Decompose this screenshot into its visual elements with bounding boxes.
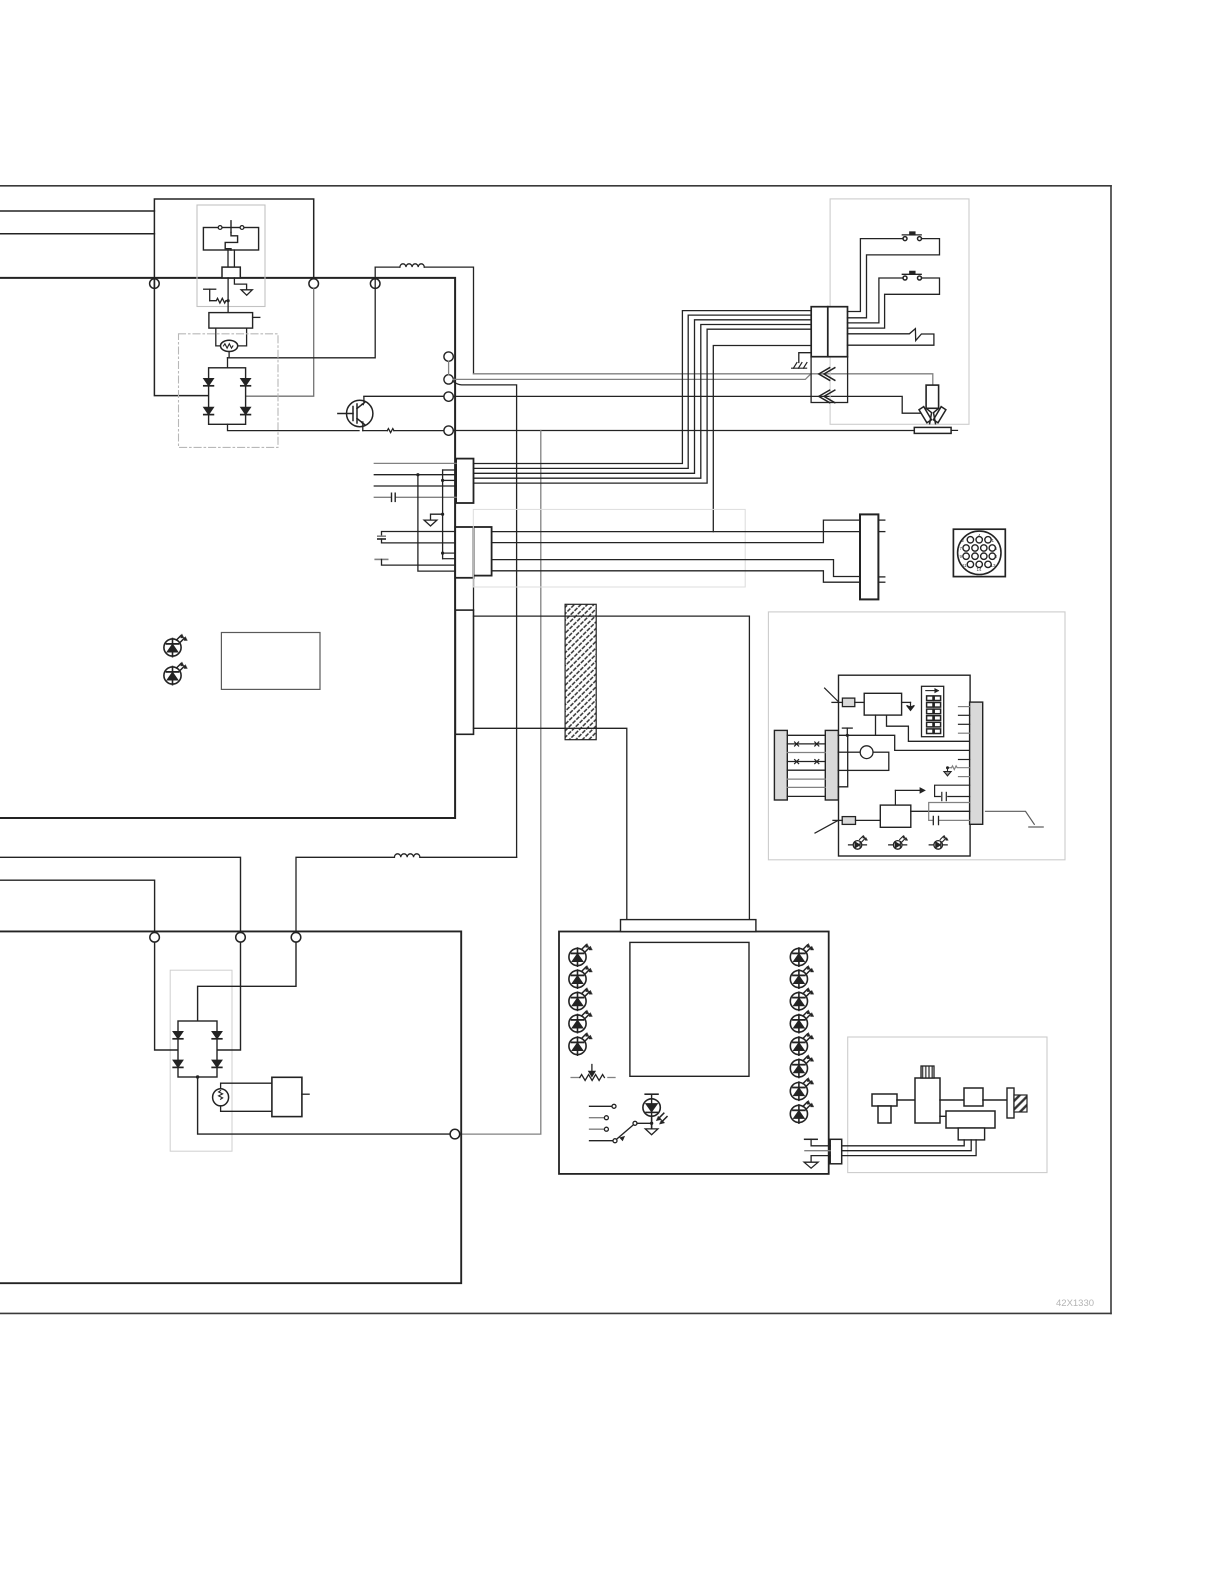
transistor circle on relay	[860, 746, 873, 759]
bridge rectifier CR1 body	[209, 368, 246, 425]
bar stub d	[959, 732, 970, 734]
bridge CR1 diode upper-right	[241, 379, 251, 386]
bridge CR1 diode lower-left	[204, 407, 214, 414]
service boundary box lower	[170, 970, 232, 1151]
ground bus stub to CN2 upper	[443, 552, 456, 554]
power supply inner frame (wire rectangle)	[154, 199, 313, 396]
bar stub c	[959, 723, 970, 725]
panel LED R3	[790, 988, 813, 1011]
interlock connector body left	[811, 307, 828, 357]
panel output connector	[830, 1139, 842, 1164]
panel LED L3	[569, 988, 592, 1011]
bridge rectifier CR2 body	[178, 1021, 217, 1077]
junction dot bridge bottom	[196, 1075, 199, 1078]
power switch contact left	[218, 226, 222, 230]
panel LED L2	[569, 966, 592, 989]
transformer neck wires	[216, 328, 247, 346]
wire motor to bridge top	[228, 352, 230, 368]
junction dot ground bus mid	[441, 513, 444, 516]
panel LED L4	[569, 1010, 592, 1033]
filter box with capacitor	[935, 785, 970, 800]
panel LED L1	[569, 944, 592, 967]
print unit frame	[848, 1037, 1047, 1173]
inductor L1	[375, 264, 473, 374]
DIP switch elements	[927, 696, 941, 734]
panel LED R8	[790, 1101, 813, 1124]
relay block on board	[848, 752, 889, 770]
input resistor R2	[842, 817, 855, 825]
controller board outline	[839, 675, 971, 856]
bundle wire 2	[474, 315, 812, 468]
label box on main board	[221, 633, 320, 690]
feed drop wire to CN2	[418, 475, 455, 571]
panel LED R1	[790, 944, 813, 967]
motor M2 winding squiggle	[219, 1091, 223, 1100]
ribbon wire 7 gray	[787, 786, 825, 788]
sensor wiring 1	[842, 1140, 965, 1146]
slider block	[964, 1088, 983, 1106]
wire T3 to lower thermistor (dark)	[364, 396, 921, 413]
wire lever to LED cathode	[637, 1122, 652, 1124]
wire return rail lower (from feed drop)	[296, 857, 517, 932]
DIP switch arrow	[926, 689, 938, 692]
CN1 pin wire from ground bus	[443, 469, 457, 471]
bridge CR2 diode lower-right	[212, 1060, 222, 1067]
wire T2 to lamp feed drop (dark)	[453, 381, 517, 857]
terminal circle T2 on right edge	[444, 375, 453, 384]
bridge CR2 diode lower-left	[173, 1060, 183, 1067]
panel LED R7	[790, 1078, 813, 1101]
bar stub f gray	[959, 776, 970, 778]
gray return drop at x541	[460, 431, 541, 1135]
cable wire 2	[492, 520, 860, 543]
link solenoid to slider	[940, 1099, 964, 1101]
status LED D4	[889, 836, 908, 850]
ferrite block hatched	[565, 604, 596, 739]
terminal circle T3 on right edge	[444, 392, 453, 401]
ribbon wire 3 gray	[787, 752, 825, 754]
power switch SW	[203, 221, 258, 250]
motor M2 wiring to driver	[221, 1083, 272, 1111]
panel LED R5	[790, 1033, 813, 1056]
DIP switch block	[922, 686, 944, 736]
display window	[630, 942, 749, 1076]
signal arrow	[895, 788, 924, 805]
panel ground arrow	[804, 1162, 818, 1168]
fuser cable frame	[473, 509, 745, 587]
panel LED L5	[569, 1033, 592, 1056]
lamp stub right	[951, 429, 957, 431]
zener junction dot	[946, 766, 949, 769]
panel LED R6	[790, 1055, 813, 1078]
junction dot ground bus upper	[441, 479, 444, 482]
junction dot ground bus lower	[441, 552, 444, 555]
wire circle2 to bridge right	[217, 942, 241, 1050]
line filter box	[222, 267, 240, 278]
node terminal circle mid on main edge	[309, 279, 319, 289]
actuator tee vertical	[878, 1106, 891, 1123]
status LED D3	[849, 836, 868, 850]
wire bridge top to boost inductor	[228, 267, 376, 358]
ribbon wire 2 with twist marks	[787, 742, 825, 746]
bar stub e	[959, 759, 970, 761]
U1 output to ground arrow	[902, 701, 911, 703]
U2 output line	[911, 810, 970, 812]
panel LED R4	[790, 1010, 813, 1033]
heat arrow right wing	[933, 407, 946, 423]
wall hatched block	[1014, 1095, 1027, 1112]
relay stubs to edge connector	[838, 752, 847, 770]
sensor box upper	[946, 1111, 995, 1128]
panel output cap plate	[805, 1138, 818, 1140]
rotary switch lever	[617, 1121, 638, 1140]
power switch contact right	[240, 226, 244, 230]
IGBT Q1	[338, 400, 373, 426]
link tee to solenoid	[897, 1099, 915, 1101]
wire R2 to U2	[856, 819, 881, 821]
ground lead lower	[811, 1156, 830, 1163]
round connector pins row3	[963, 553, 996, 559]
cap loop upper lead gray	[929, 803, 970, 821]
thermal link loop with break symbol	[848, 329, 934, 346]
solenoid coil cap hatched	[921, 1066, 934, 1078]
svg-text:13: 13	[991, 563, 997, 568]
bridge CR2 diode upper-right	[212, 1032, 222, 1039]
wire R1 to U1	[855, 701, 864, 703]
signal ground arrow	[424, 520, 437, 526]
SW1 return wiring	[848, 239, 940, 318]
interlock switch SW1	[902, 232, 921, 241]
capacitor C2 upper lead	[382, 532, 456, 537]
capacitor C1 plates	[392, 493, 396, 501]
R2 lead label slash	[815, 821, 838, 833]
link slider to stop	[983, 1099, 1007, 1101]
wire bridge bottom to emitter rail	[228, 424, 360, 430]
bar stub b	[959, 714, 970, 716]
wire AC feed upper	[0, 857, 241, 932]
connector CN3 body	[455, 610, 473, 734]
gray link T1-T2	[448, 361, 450, 374]
motor driver box	[272, 1077, 302, 1116]
row1 routing into board	[838, 735, 969, 750]
capacitor C3 lead	[382, 559, 456, 565]
ribbon wire 8	[787, 795, 825, 797]
board LED B	[164, 662, 187, 685]
terminal circle T1 on right edge	[444, 352, 453, 361]
wire T4 lamp rail (dark)	[453, 430, 914, 432]
bar stub a	[959, 706, 970, 708]
chassis ground arrow	[241, 290, 252, 295]
wire thermistor upper (gray) from inductor	[474, 374, 933, 385]
bundle wire 3	[474, 320, 812, 474]
node terminal circle right on main edge	[370, 279, 380, 289]
sensor wiring 3	[842, 1140, 976, 1156]
feed wire from filter to relay	[227, 278, 229, 313]
lower block outline	[0, 931, 461, 1283]
ground tap step	[431, 514, 443, 520]
main board block outline	[0, 278, 455, 818]
connector CN1 body	[456, 459, 473, 503]
loop capacitor plates	[933, 816, 938, 824]
wire emitter down	[362, 425, 364, 431]
thermistor housing box	[811, 357, 848, 403]
svg-text:14: 14	[977, 567, 983, 572]
emitter rail with ferrite squiggle	[363, 429, 444, 433]
IGBT emitter arrow	[360, 421, 364, 425]
U1 step wiring right	[887, 715, 970, 741]
thermistor RT1 chevron	[819, 368, 835, 381]
zener to ground with resistor	[948, 766, 970, 770]
CN1 pin stub from ground bus	[443, 479, 457, 481]
svg-text:42X1330: 42X1330	[1056, 1298, 1094, 1309]
wire CN3 to panel right drop	[474, 616, 750, 920]
board output connector bar	[970, 702, 983, 824]
chassis ground hatch symbol	[792, 363, 807, 369]
thermistor RT2 chevron	[819, 390, 835, 403]
wire bridge bottom to return rail	[198, 1077, 451, 1134]
interlock switch SW2	[902, 271, 921, 280]
round connector shell	[958, 531, 1001, 574]
round connector pins row4	[967, 561, 991, 567]
terminal circle T4 on right edge	[444, 426, 453, 435]
test point tee	[842, 728, 852, 735]
gray lead mid	[805, 1150, 830, 1152]
R2 lead in	[833, 819, 842, 821]
bundle wire 4	[474, 325, 812, 479]
heat arrow center vee	[926, 408, 939, 423]
status LED D5	[929, 836, 948, 850]
thermal fuse body	[926, 385, 939, 408]
page border frame	[0, 186, 1111, 1314]
rotary switch contacts	[590, 1104, 618, 1142]
sensor box lower	[958, 1128, 984, 1140]
sensor wiring 2	[842, 1140, 972, 1151]
actuator tee horizontal	[872, 1094, 897, 1106]
chassis ground lead	[799, 353, 811, 363]
bundle wire 1	[474, 311, 812, 464]
panel top connector	[621, 920, 756, 932]
wire circle1 to bridge left	[155, 942, 178, 1050]
input resistor R1	[842, 698, 854, 707]
fuser connector body	[860, 514, 878, 599]
LED ground arrow	[645, 1129, 658, 1135]
solenoid body	[915, 1078, 940, 1123]
round connector pins row1	[967, 537, 991, 543]
CN1 pin wire gray with capacitor C1	[374, 496, 456, 498]
AC inlet sub-assembly gray box	[197, 205, 265, 307]
capacitor C2 plate bottom	[378, 538, 385, 540]
frame ground lead out	[986, 811, 1044, 827]
link CN2 to CN3	[473, 578, 475, 610]
wire circle3 into bridge top	[198, 942, 296, 1021]
bridge CR1 diode upper-left	[204, 379, 214, 386]
contrast potentiometer	[571, 1065, 615, 1081]
node terminal circle left on main edge	[150, 279, 160, 289]
svg-text:11: 11	[962, 563, 967, 568]
ground bus stub to CN2 lower	[443, 558, 456, 560]
inductor L2	[394, 854, 420, 858]
wire collector up and right	[364, 396, 444, 401]
wire AC feed lower	[0, 880, 155, 932]
IC U2	[880, 805, 911, 827]
bundle wire 5	[474, 329, 812, 483]
board LED A	[164, 634, 187, 657]
controller card frame	[768, 612, 1065, 860]
cable wire 1 CN2 to fuser connector	[492, 531, 860, 533]
card edge connector left bar	[774, 730, 787, 800]
dash-dot service boundary around bridge	[179, 334, 279, 448]
SW1 wiring	[848, 239, 904, 312]
junction dot feed drop	[416, 473, 419, 476]
cap plate lead	[811, 1139, 830, 1146]
fuser connector stub 4	[878, 581, 884, 583]
capacitor C2 lower lead	[382, 539, 456, 543]
cable wire 3	[492, 560, 860, 577]
link solenoid to sensor box	[940, 1115, 946, 1117]
bundle wire 6 from CN2	[713, 346, 811, 532]
motor M2	[213, 1089, 229, 1106]
cable wire 4	[492, 571, 860, 582]
edge terminal circle 2	[236, 933, 246, 943]
wire AC line in upper	[0, 210, 154, 212]
junction dot on row1	[846, 734, 849, 737]
R1 lead in	[832, 701, 842, 703]
round connector face plate	[953, 529, 1005, 576]
IC U1	[864, 693, 901, 715]
ribbon wire 5	[787, 769, 825, 771]
earth lead with ground arrow	[234, 278, 246, 290]
R1 lead label slash	[825, 688, 838, 701]
round connector pin numbers	[960, 533, 998, 572]
ground arrow symbol	[907, 702, 915, 710]
driver stub right	[302, 1093, 309, 1095]
ribbon wire 4 with twist marks	[787, 760, 825, 764]
fuser connector stub 2	[878, 531, 884, 533]
fuser connector stub 1	[878, 519, 884, 521]
bridge CR2 diode upper-left	[173, 1032, 183, 1039]
relay box	[209, 313, 253, 329]
backlight LED assembly	[643, 1094, 667, 1129]
connector CN2 body right	[474, 527, 492, 576]
CN1 pin wire gray	[374, 462, 456, 464]
connector CN2 body left	[455, 527, 473, 578]
IGBT collector arrow	[361, 402, 365, 405]
junction dot on inlet feed	[227, 299, 230, 302]
heat arrow left wing	[919, 407, 932, 423]
edge terminal circle 3	[291, 933, 301, 943]
zener ground triangle	[944, 768, 951, 776]
wire CN3 to panel left drop	[474, 728, 627, 919]
wire AC line in lower	[0, 233, 154, 235]
junction dot under LED	[650, 1122, 653, 1125]
capacitor C2 plate top (gray)	[378, 535, 385, 537]
U1 step wiring left	[875, 715, 877, 735]
wire thermistor return (gray) from T2	[453, 374, 811, 380]
fuser lamp body	[914, 427, 951, 433]
fuser assembly frame	[830, 199, 969, 424]
panel board outline	[559, 932, 829, 1174]
bridge CR1 diode lower-right	[241, 407, 251, 414]
ribbon wire 6 gray	[787, 778, 825, 780]
stop plate	[1007, 1088, 1014, 1118]
interlock connector body right	[828, 307, 848, 357]
card edge connector right bar	[825, 730, 838, 800]
edge terminal circle return	[450, 1129, 460, 1139]
motor M1 winding squiggle	[224, 344, 233, 348]
CN1 pin wire lower	[374, 485, 456, 487]
SW2 wiring	[848, 278, 904, 323]
sense line vertical	[838, 735, 847, 787]
switch leads down to filter	[228, 250, 234, 267]
RC snubber tee	[204, 289, 228, 303]
SW2 return wiring	[848, 278, 940, 328]
ribbon wire 1	[787, 734, 825, 736]
edge terminal circle 1	[150, 933, 160, 943]
relay stub right	[253, 316, 260, 318]
panel LED R2	[790, 966, 813, 989]
capacitor C3 plate (gray)	[375, 558, 388, 560]
ground bus vertical	[442, 470, 444, 559]
round connector pins row2	[963, 545, 996, 551]
CN1 pin wire mid	[374, 474, 456, 476]
fuser connector stub 3	[878, 576, 884, 578]
motor M1 (thermistor oval)	[221, 340, 238, 351]
